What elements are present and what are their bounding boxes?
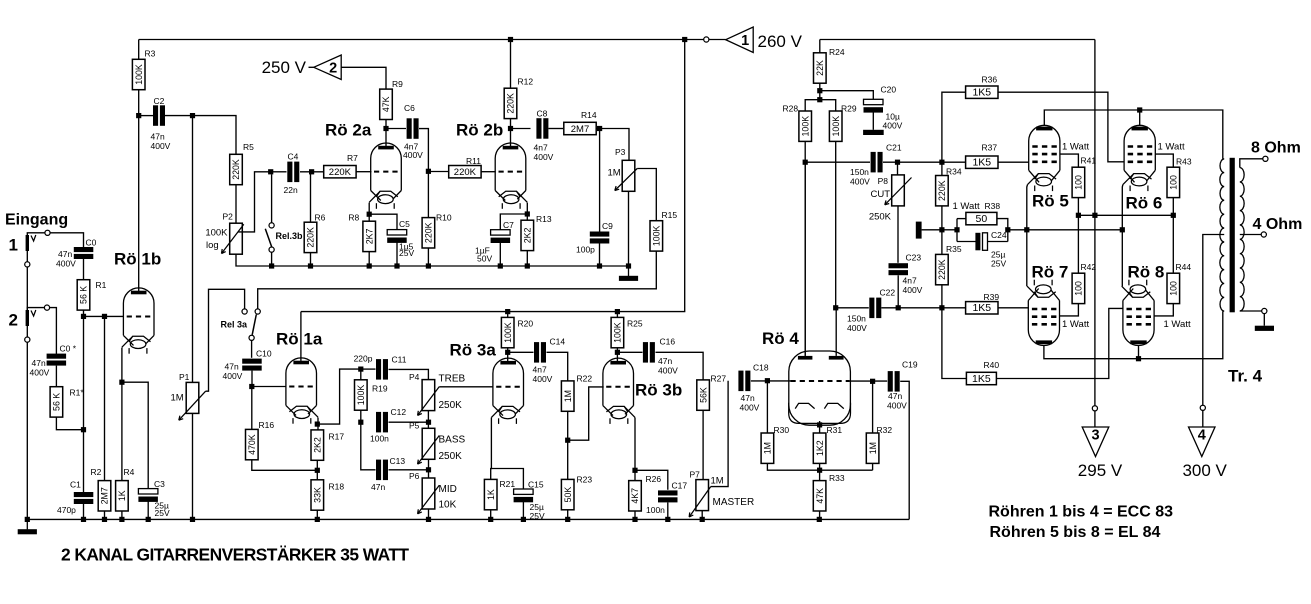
wire <box>634 511 636 519</box>
node Ro2b-cathode <box>525 211 530 216</box>
svg-text:2: 2 <box>9 311 18 330</box>
resistor R3 <box>132 49 155 90</box>
wire <box>599 129 601 232</box>
svg-text:C14: C14 <box>550 337 566 347</box>
svg-text:1M: 1M <box>711 476 724 487</box>
svg-text:Rö 2a: Rö 2a <box>325 121 372 140</box>
node Ro2a-anode <box>383 126 388 131</box>
triode Rö 3b <box>603 358 635 424</box>
svg-text:R12: R12 <box>518 77 534 87</box>
svg-text:P3: P3 <box>615 147 626 157</box>
node Ro4-grid-L <box>765 378 770 383</box>
resistor R42 <box>1072 262 1096 304</box>
wire ch2 ground bus <box>236 254 629 266</box>
wire to C11 node <box>317 369 361 424</box>
wire Ro3a grid <box>439 386 493 388</box>
terminal 300V <box>1200 405 1205 410</box>
wire <box>83 259 85 279</box>
terminal 8 Ohm <box>1263 156 1268 161</box>
wire <box>628 191 630 266</box>
wire <box>820 91 874 100</box>
wire <box>83 311 85 493</box>
potentiometer P3 <box>615 160 637 191</box>
node C9-top <box>597 126 602 131</box>
svg-text:R2: R2 <box>91 467 102 477</box>
wire Ro4 anode L <box>804 162 806 356</box>
svg-text:1K: 1K <box>117 490 127 501</box>
wire B+ line preamp <box>301 40 685 312</box>
svg-text:C24: C24 <box>991 230 1007 240</box>
wire <box>702 410 704 479</box>
svg-text:400V: 400V <box>850 177 870 187</box>
svg-text:25V: 25V <box>991 259 1006 269</box>
svg-text:Tr. 4: Tr. 4 <box>1228 367 1263 386</box>
pentode Rö 7 <box>1027 280 1059 346</box>
svg-text:P1: P1 <box>179 372 190 382</box>
wire <box>511 128 531 130</box>
jack 2 sleeve <box>25 337 30 342</box>
svg-text:400V: 400V <box>740 403 760 413</box>
wire <box>26 267 28 310</box>
wire <box>667 503 669 520</box>
svg-text:4n7: 4n7 <box>534 143 548 153</box>
wire <box>942 229 957 231</box>
svg-text:4: 4 <box>1198 428 1206 444</box>
svg-text:100: 100 <box>1169 281 1179 296</box>
resistor R24 <box>814 47 845 83</box>
node <box>817 517 822 522</box>
svg-text:250K: 250K <box>439 451 463 462</box>
capacitor C17 <box>658 490 678 502</box>
wire <box>656 352 704 380</box>
capacitor C19 <box>888 371 900 392</box>
wire Ro7 screen <box>1060 304 1079 316</box>
node <box>1120 227 1125 232</box>
resistor R37 <box>966 143 998 169</box>
wire <box>235 185 237 223</box>
resistor R33 <box>813 473 845 511</box>
svg-text:400V: 400V <box>30 368 50 378</box>
svg-text:R26: R26 <box>646 474 662 484</box>
wire <box>122 382 148 489</box>
svg-text:R33: R33 <box>829 473 845 483</box>
svg-text:C12: C12 <box>391 407 407 417</box>
node <box>665 517 670 522</box>
wire Ro6 screen <box>1155 154 1173 167</box>
capacitor C2 <box>153 105 165 126</box>
svg-text:50: 50 <box>976 213 988 225</box>
wire screen rail <box>1078 214 1173 216</box>
wire <box>427 248 429 266</box>
wire Ro1a grid <box>252 386 287 388</box>
contact <box>249 335 254 340</box>
resistor R13 <box>521 214 552 251</box>
potentiometer P2 <box>222 223 244 254</box>
capacitor C23 <box>889 263 909 275</box>
svg-text:4n7: 4n7 <box>903 276 917 286</box>
node <box>426 263 431 268</box>
svg-text:P2: P2 <box>223 212 234 222</box>
connector 1 (260 V) <box>726 27 754 53</box>
svg-text:47K: 47K <box>381 96 391 112</box>
wire <box>881 307 966 309</box>
svg-text:C13: C13 <box>390 456 406 466</box>
wire <box>635 470 668 489</box>
wire <box>428 459 430 478</box>
wire <box>510 40 512 89</box>
svg-text:2M7: 2M7 <box>571 124 589 135</box>
node Ro4-grid-R <box>870 379 875 384</box>
wire <box>1172 198 1174 273</box>
node Ro3b-anode <box>615 350 620 355</box>
svg-text:C19: C19 <box>902 360 918 370</box>
svg-text:R24: R24 <box>829 47 845 57</box>
potentiometer P7 <box>689 480 711 517</box>
node <box>269 263 274 268</box>
potentiometer P4 <box>418 380 440 416</box>
wire cathode <box>490 418 493 480</box>
node C21-left <box>803 160 808 165</box>
svg-text:R42: R42 <box>1081 262 1097 272</box>
node R25-top <box>615 309 620 314</box>
wire <box>389 469 429 471</box>
svg-text:47K: 47K <box>815 488 825 504</box>
node C22-right <box>939 305 944 310</box>
svg-text:R28: R28 <box>783 104 799 114</box>
svg-text:56K: 56K <box>698 387 708 403</box>
terminal <box>1262 308 1267 313</box>
wire <box>547 352 568 381</box>
wire <box>507 312 509 318</box>
triode Rö 1a <box>286 358 318 424</box>
svg-text:R1: R1 <box>96 280 107 290</box>
wire <box>957 218 966 220</box>
svg-text:R7: R7 <box>347 153 358 163</box>
wire <box>428 509 430 519</box>
wire Ro8 screen <box>1154 304 1173 316</box>
node <box>954 227 959 232</box>
node <box>394 263 399 268</box>
wire 300V column <box>1203 235 1224 406</box>
node <box>1137 107 1142 112</box>
svg-text:C1: C1 <box>70 480 81 490</box>
wire <box>499 241 501 266</box>
svg-text:C0: C0 <box>86 238 97 248</box>
wire <box>192 413 194 519</box>
wire <box>957 241 976 243</box>
resistor R26 <box>629 474 662 511</box>
wire R39 to Ro7 grid <box>998 307 1029 309</box>
svg-text:2K2: 2K2 <box>523 227 533 243</box>
wire <box>567 510 569 520</box>
node main ground <box>25 517 30 522</box>
wire <box>396 240 398 266</box>
wire P1 column <box>192 116 194 383</box>
capacitor C9 <box>590 232 610 244</box>
svg-text:1K: 1K <box>486 489 496 500</box>
wire <box>271 174 273 222</box>
wire <box>55 366 57 387</box>
wire <box>942 308 967 379</box>
wire <box>942 92 966 162</box>
wire <box>386 128 406 130</box>
svg-text:Rö 3a: Rö 3a <box>450 341 497 360</box>
node <box>1136 356 1141 361</box>
potentiometer P8 <box>885 175 912 206</box>
wire <box>147 499 149 520</box>
wire <box>872 112 874 130</box>
resistor R38 <box>966 201 1000 225</box>
wire <box>316 510 318 519</box>
svg-text:MID: MID <box>439 484 457 495</box>
resistor R14 <box>564 110 597 135</box>
svg-text:250K: 250K <box>869 212 892 223</box>
svg-text:1 Watt: 1 Watt <box>1062 142 1089 153</box>
wire <box>616 312 618 318</box>
wire <box>104 511 106 519</box>
svg-text:R30: R30 <box>774 425 790 435</box>
resistor R7 <box>324 153 358 178</box>
svg-text:220K: 220K <box>231 159 241 180</box>
svg-text:R25: R25 <box>627 319 643 329</box>
resistor R1* <box>50 387 84 417</box>
wire <box>1263 314 1265 326</box>
wire cathode <box>526 203 528 221</box>
svg-text:220K: 220K <box>306 227 316 248</box>
wire <box>872 381 874 433</box>
wire <box>104 316 106 480</box>
node R34-top <box>939 160 944 165</box>
wire <box>819 511 821 519</box>
svg-text:100: 100 <box>1074 175 1084 190</box>
svg-text:R35: R35 <box>946 244 962 254</box>
node C2-left <box>136 113 141 118</box>
svg-text:400V: 400V <box>658 366 678 376</box>
node R17-bottom <box>315 468 320 473</box>
node <box>146 517 151 522</box>
resistor R40 <box>966 360 999 385</box>
svg-text:400V: 400V <box>403 150 423 160</box>
resistor R8 <box>363 221 376 251</box>
svg-text:Rö 2b: Rö 2b <box>456 121 503 140</box>
node <box>102 517 107 522</box>
svg-text:1K5: 1K5 <box>972 373 991 385</box>
svg-text:33K: 33K <box>313 487 323 503</box>
svg-text:C4: C4 <box>288 152 299 162</box>
potentiometer P1 <box>179 382 206 420</box>
resistor R16 <box>246 420 275 460</box>
wire <box>508 351 534 353</box>
svg-text:100K: 100K <box>205 228 228 239</box>
svg-text:R34: R34 <box>946 167 962 177</box>
wire C19 return <box>900 381 909 519</box>
capacitor C3 <box>138 489 158 502</box>
node R2-top <box>102 314 107 319</box>
svg-text:1K5: 1K5 <box>972 157 991 169</box>
resistor R44 <box>1167 262 1191 304</box>
wire <box>941 162 943 175</box>
wire <box>165 116 236 155</box>
node <box>565 517 570 522</box>
wire <box>956 219 958 242</box>
svg-text:TREB: TREB <box>439 374 466 385</box>
resistor R30 <box>761 425 789 463</box>
node <box>81 517 86 522</box>
node rail-R12 <box>508 37 513 42</box>
node P8-top <box>895 160 900 165</box>
svg-text:100K: 100K <box>134 64 144 85</box>
svg-text:C10: C10 <box>256 349 272 359</box>
node R28-R29 <box>817 97 822 102</box>
connector 4 (300 V) <box>1189 427 1216 457</box>
wire <box>138 90 140 293</box>
wire <box>310 253 312 266</box>
svg-text:R13: R13 <box>536 214 552 224</box>
ground secondary <box>1255 326 1274 331</box>
wire <box>500 214 527 230</box>
wire <box>510 119 512 147</box>
wire <box>709 39 726 41</box>
node Ro3b-cathode <box>632 468 637 473</box>
svg-text:1 Watt: 1 Watt <box>1062 319 1089 330</box>
capacitor C7 <box>491 230 511 243</box>
svg-text:47n: 47n <box>32 358 46 368</box>
wire <box>820 100 836 111</box>
node Rel3b-top <box>268 169 273 174</box>
wire <box>850 380 888 382</box>
svg-text:50K: 50K <box>563 487 573 503</box>
svg-text:Eingang: Eingang <box>5 212 68 229</box>
svg-text:R9: R9 <box>392 79 403 89</box>
wire <box>26 326 28 337</box>
capacitor C5 <box>387 230 407 243</box>
wire <box>836 307 869 309</box>
svg-text:P6: P6 <box>409 471 420 481</box>
wire anode rail top <box>1044 110 1223 159</box>
ground C20 <box>863 130 884 135</box>
wire <box>50 308 57 355</box>
svg-text:56 K: 56 K <box>79 286 89 304</box>
wire 260V rail <box>139 39 706 41</box>
node C11-left <box>358 367 363 372</box>
wire <box>1202 411 1204 428</box>
node Ro4-cathode <box>817 422 822 427</box>
svg-text:R44: R44 <box>1176 262 1192 272</box>
wire <box>596 129 629 161</box>
svg-text:R37: R37 <box>982 143 998 153</box>
wire <box>252 460 317 470</box>
svg-text:C9: C9 <box>602 221 613 231</box>
capacitor C22 <box>869 298 881 319</box>
resistor R6 <box>304 213 325 253</box>
svg-text:R39: R39 <box>984 292 1000 302</box>
ground <box>619 266 638 281</box>
svg-text:R17: R17 <box>329 432 345 442</box>
svg-text:C11: C11 <box>392 355 407 365</box>
svg-text:3: 3 <box>1091 428 1099 444</box>
resistor R29 <box>829 104 856 142</box>
wire <box>805 161 870 163</box>
wire <box>27 233 45 235</box>
wire <box>419 129 428 172</box>
svg-text:470K: 470K <box>247 434 257 455</box>
resistor R36 <box>966 75 998 99</box>
wire R15 to Rel3a <box>258 251 657 309</box>
wire <box>1138 346 1140 359</box>
svg-text:1K2: 1K2 <box>815 440 825 456</box>
node Ro1a-cathode <box>315 422 320 427</box>
capacitor C6 <box>407 118 419 139</box>
svg-text:100K: 100K <box>613 322 623 343</box>
wire P1 wiper <box>206 289 245 391</box>
wire <box>26 251 28 262</box>
node screen rail <box>1171 213 1176 218</box>
resistor R41 <box>1072 156 1096 198</box>
wire anode <box>300 312 302 361</box>
terminal 295V <box>1092 406 1097 411</box>
node R24-bottom <box>817 88 822 93</box>
wire <box>389 369 429 379</box>
resistor R28 <box>783 104 812 142</box>
wire <box>599 244 601 267</box>
input jack 1 <box>26 235 36 251</box>
node <box>426 420 431 425</box>
wire <box>50 233 83 248</box>
svg-text:R6: R6 <box>315 213 326 223</box>
svg-text:1: 1 <box>741 33 749 49</box>
svg-text:1M: 1M <box>868 442 878 454</box>
resistor R27 <box>697 374 727 411</box>
svg-text:R5: R5 <box>243 142 254 152</box>
wire <box>300 171 324 173</box>
resistor R10 <box>422 213 452 249</box>
svg-text:C20: C20 <box>881 85 897 95</box>
node <box>1092 213 1097 218</box>
svg-text:Rö 1a: Rö 1a <box>276 330 323 349</box>
svg-text:R22: R22 <box>577 374 593 384</box>
resistor R18 <box>311 480 344 510</box>
svg-text:CUT: CUT <box>870 189 890 200</box>
svg-text:1M: 1M <box>608 168 621 179</box>
svg-text:Rö 8: Rö 8 <box>1128 263 1165 282</box>
wire P7 wiper <box>711 381 728 487</box>
svg-text:25V: 25V <box>155 508 170 518</box>
resistor R23 <box>561 475 592 510</box>
svg-text:R20: R20 <box>518 319 534 329</box>
svg-text:2K7: 2K7 <box>364 228 374 244</box>
node <box>521 517 526 522</box>
node <box>426 467 431 472</box>
svg-text:MASTER: MASTER <box>713 497 755 508</box>
wire <box>361 368 376 370</box>
svg-text:220K: 220K <box>454 167 477 178</box>
svg-text:100K: 100K <box>800 116 810 137</box>
svg-text:56 K: 56 K <box>52 393 62 411</box>
resistor R43 <box>1167 157 1192 198</box>
svg-text:C18: C18 <box>753 363 769 373</box>
svg-text:C0 *: C0 * <box>60 344 77 354</box>
svg-text:Rö 4: Rö 4 <box>762 329 799 348</box>
svg-text:25V: 25V <box>530 511 545 521</box>
node C12-left <box>358 420 363 425</box>
wire <box>385 120 387 147</box>
svg-text:22K: 22K <box>815 60 825 76</box>
wire R36 to Ro6 grid <box>998 92 1124 162</box>
capacitor C10 <box>242 359 262 371</box>
wire <box>427 171 429 217</box>
svg-text:R36: R36 <box>982 75 998 85</box>
wire <box>897 206 899 263</box>
